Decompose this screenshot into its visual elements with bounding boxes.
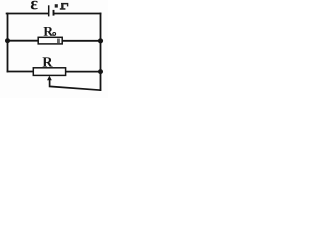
label epsilon (EMF) [31, 1, 38, 10]
node dot right lower [98, 69, 103, 74]
resistor R0 box [38, 37, 62, 44]
node dot right middle [98, 38, 103, 43]
wiper arrow head [47, 76, 52, 81]
node dot left middle [5, 38, 10, 43]
label R [43, 57, 53, 66]
wire right vertical [100, 14, 102, 91]
label T (key) [55, 3, 69, 10]
wire rheostat row left segment [8, 71, 34, 73]
wire middle left segment [8, 40, 39, 42]
wire top left segment [7, 13, 48, 15]
scan smudge inside R0 box [57, 39, 60, 43]
wire wiper bottom segment [50, 81, 101, 91]
wire middle right segment [62, 40, 101, 42]
wire rheostat row right segment [65, 71, 100, 73]
label R0 [44, 27, 54, 36]
label R0 subscript [53, 33, 56, 36]
battery cell short plate [53, 10, 55, 16]
battery cell long plate [48, 5, 50, 16]
wire top right segment [54, 13, 101, 15]
resistor R box (rheostat) [33, 68, 65, 76]
wire left vertical [7, 14, 9, 72]
